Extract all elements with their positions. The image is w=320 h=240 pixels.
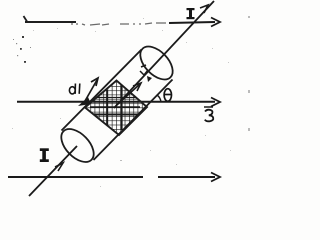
label I (bottom current) <box>40 148 49 162</box>
wire (diagonal current-carrying conductor, lower segment) <box>29 146 77 196</box>
label dl <box>69 84 79 94</box>
top field line (dashed scanned) <box>24 16 77 22</box>
cylinder body edges <box>62 50 173 161</box>
angle arc theta <box>157 95 161 102</box>
label I (top current) <box>187 8 195 19</box>
arrowhead of middle field line <box>211 98 220 107</box>
label theta <box>164 89 171 102</box>
cross-section (hatched rhombus) <box>84 81 147 136</box>
middle field line <box>17 101 215 103</box>
solid arrowhead at foot of dl on middle line <box>78 97 91 106</box>
cylinder top end face (ellipse) <box>134 41 178 86</box>
arrowhead on wire lower (current direction) <box>55 163 63 171</box>
arrowhead of top field line <box>211 18 220 27</box>
scan noise specks <box>20 36 26 63</box>
vector dl <box>85 78 98 101</box>
arrowhead of axis vector inside cylinder <box>118 83 141 104</box>
cylinder bottom end face (ellipse, white filled, drawn first) <box>55 123 99 168</box>
bottom field line <box>8 176 215 178</box>
label 3-bar (vector at right of middle line) <box>204 106 213 108</box>
small label marks (v vector label) <box>140 65 148 75</box>
arrowhead on wire upper (current direction) <box>200 5 208 13</box>
wire (diagonal conductor, upper segment through cylinder axis) <box>114 1 214 108</box>
arrowhead of bottom field line <box>211 173 220 182</box>
